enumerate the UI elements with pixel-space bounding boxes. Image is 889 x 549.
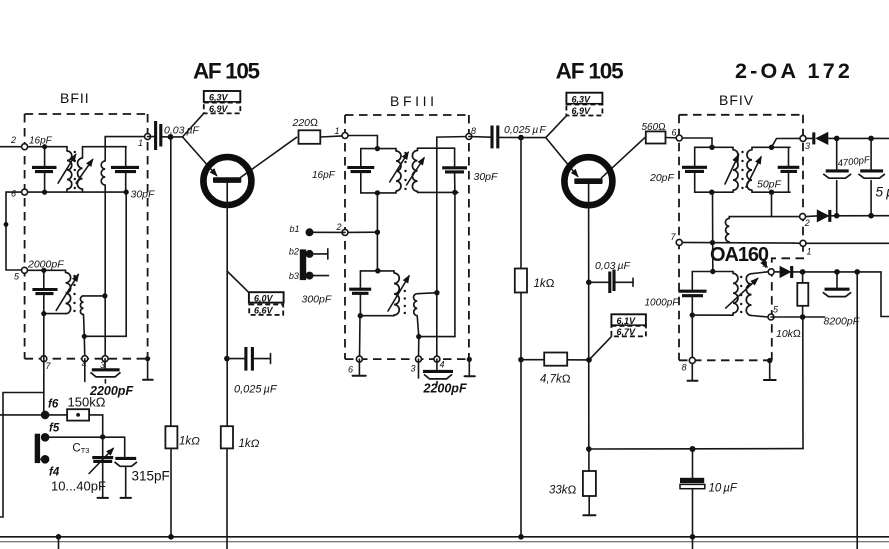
- svg-text:6,1V: 6,1V: [617, 316, 637, 326]
- capacitor 2200pF under BFIII pin4: [423, 359, 453, 384]
- IF can BFIV dashed box: [679, 115, 803, 360]
- wire BFIII tank bottom to pin6: [359, 316, 362, 359]
- svg-text:16pF: 16pF: [29, 136, 53, 147]
- wire long drop to bus right: [856, 272, 858, 549]
- coil BFIV coupling winding: [725, 217, 771, 243]
- wire BFIII feedback link: [419, 192, 455, 336]
- wire BFIV secondary to pin2 tee: [772, 192, 803, 216]
- coil BFII tap winding: [101, 137, 105, 185]
- pin 2 BFIV: [800, 214, 810, 228]
- svg-text:BFII: BFII: [60, 90, 90, 106]
- svg-text:f5: f5: [49, 423, 60, 435]
- capacitor 315pF: [115, 437, 138, 498]
- tuning arrow BFIV upper secondary: [746, 157, 761, 187]
- wire BFIII pin2 lead: [345, 231, 377, 233]
- wire pin5 rail: [771, 316, 825, 318]
- trimmer capacitor CT3 10...40pF: [89, 437, 113, 498]
- wire BFIV pin6 to tank: [679, 138, 715, 150]
- pin 4 BFIII: [434, 356, 445, 369]
- capacitor 0,03uF at second base: [586, 270, 633, 294]
- wire BFII tap down to lower secondary and pin3: [102, 185, 107, 359]
- svg-text:2-OA 172: 2-OA 172: [735, 59, 853, 83]
- svg-text:2: 2: [10, 135, 16, 145]
- node BFIII box corner with stub: [465, 357, 475, 376]
- svg-text:300pF: 300pF: [302, 294, 332, 306]
- transformer BFII upper core: [74, 151, 76, 189]
- svg-text:4: 4: [440, 360, 445, 370]
- svg-text:20pF: 20pF: [649, 172, 675, 184]
- wire edge line below bus: [0, 541, 889, 543]
- transistor AF105 second: collector line: [602, 138, 645, 178]
- svg-text:b3: b3: [289, 271, 299, 281]
- svg-text:150kΩ: 150kΩ: [68, 395, 106, 410]
- resistor 1k base first stage: [221, 426, 260, 549]
- svg-text:1: 1: [138, 138, 143, 148]
- wire BFII lower secondary top to tap vertical: [84, 295, 105, 297]
- pin 2 BFII: [10, 135, 28, 150]
- capacitor 5uF: [858, 138, 885, 215]
- capacitor 1000pF BFIV: [679, 272, 707, 318]
- svg-text:2200pF: 2200pF: [423, 382, 467, 396]
- pin 6 BFIV: [672, 128, 683, 142]
- transformer BFII upper secondary coil: [77, 147, 82, 192]
- resistor 220 collector first: [292, 117, 346, 144]
- svg-text:b1: b1: [290, 224, 300, 234]
- wire BFIII pin1 to tank: [345, 136, 380, 152]
- wire BFIV lower tank top: [692, 269, 733, 274]
- wire BFII pin6 to pin5 link via left: [4, 192, 25, 270]
- transformer BFIII lower secondary coil: [414, 294, 418, 316]
- capacitor 50pF BFIV: [778, 147, 800, 192]
- svg-text:1kΩ: 1kΩ: [239, 438, 260, 450]
- svg-text:4,7kΩ: 4,7kΩ: [540, 374, 571, 386]
- transformer BFIII upper core: [404, 152, 406, 190]
- svg-text:BFIII: BFIII: [390, 93, 438, 109]
- pin 7 BFIV: [671, 232, 683, 245]
- wire BFIII lower tank bottom: [360, 315, 394, 317]
- terminal f6: [41, 399, 59, 420]
- svg-text:1kΩ: 1kΩ: [179, 436, 200, 448]
- transistor AF105 first: collector line: [241, 137, 297, 177]
- svg-text:6,3V: 6,3V: [572, 94, 592, 104]
- pin 8 BFIII: [466, 126, 476, 140]
- transistor AF105 second: circle: [564, 157, 612, 205]
- tuning arrow BFIII upper secondary: [407, 158, 425, 185]
- transformer BFII lower core: [73, 275, 75, 312]
- capacitor 20pF BFIV: [682, 147, 707, 192]
- node detector line junction at base: [586, 446, 592, 452]
- voltage box 6,1V: [611, 314, 646, 326]
- svg-text:10kΩ: 10kΩ: [776, 328, 801, 340]
- wire BFII pin5 top rail: [25, 269, 66, 271]
- transistor AF105 second: emitter line with arrow: [546, 138, 578, 177]
- wire BFIV pin8 ground stub: [688, 360, 698, 380]
- svg-text:5µ: 5µ: [876, 185, 889, 200]
- tuning arrow BFIV upper primary: [725, 155, 739, 184]
- svg-text:2000pF: 2000pF: [27, 258, 64, 270]
- terminal f4: [40, 455, 60, 479]
- svg-text:16pF: 16pF: [312, 170, 336, 181]
- pin 3 BFIII: [411, 356, 422, 373]
- wire second base down: [588, 184, 590, 449]
- tuning arrow BFIII lower: [388, 276, 409, 311]
- svg-text:f6: f6: [48, 399, 59, 411]
- wire BFII secondary tank top: [83, 146, 127, 148]
- svg-text:8200pF: 8200pF: [824, 316, 860, 328]
- svg-text:2: 2: [804, 218, 810, 228]
- wire BFII pin6 bottom rail: [25, 191, 127, 193]
- pin 1 BFIII: [335, 126, 349, 139]
- diode OA172 lower at pin2: [806, 209, 889, 222]
- wire BFIV lower secondary top to pin4: [752, 272, 769, 274]
- terminal b2: [289, 247, 328, 260]
- pin 3 BFII: [100, 356, 108, 370]
- wire detector output line: [589, 448, 803, 450]
- transistor AF105 first: emitter line with arrow: [183, 137, 217, 176]
- wire BFIV 50pF tank bottom: [752, 190, 790, 195]
- wire BFII pin7 down to f6 node: [43, 359, 45, 415]
- resistor 1k at 0,025uF node: [515, 138, 555, 540]
- pin 3 BFIV: [800, 135, 810, 151]
- diode OA172 upper at pin3: [806, 132, 837, 145]
- svg-text:30pF: 30pF: [131, 189, 156, 201]
- svg-text:AF 105: AF 105: [193, 59, 260, 84]
- svg-text:BFIV: BFIV: [719, 92, 754, 108]
- node bus junction left: [56, 534, 62, 549]
- wire pin1 output to right edge: [806, 242, 889, 244]
- svg-text:315pF: 315pF: [132, 469, 170, 484]
- wire BFIV tank link vertical: [712, 192, 714, 271]
- svg-text:8: 8: [682, 363, 687, 373]
- svg-text:6,6V: 6,6V: [254, 306, 274, 316]
- wire rectifier top rail: [834, 136, 889, 142]
- wire BFIII pin6 ground stub: [353, 359, 366, 376]
- wire BFIV tank bottom to pin8: [691, 315, 693, 360]
- pin 1 BFIV: [800, 240, 812, 256]
- svg-text:30pF: 30pF: [474, 171, 499, 183]
- resistor 560 collector second: [642, 122, 680, 144]
- pin 6 BFIII: [348, 356, 362, 374]
- resistor 33k: [549, 449, 596, 515]
- wire BFII tank bottom to pin7: [43, 314, 45, 359]
- pin 7 BFII: [41, 356, 52, 371]
- wire BFIII lower secondary bottom to pin3: [416, 316, 421, 359]
- transformer BFIV lower secondary coil: [746, 274, 751, 316]
- capacitor 0,03uF coupling at BFII pin1: [148, 121, 171, 150]
- resistor 10k: [776, 272, 808, 340]
- resistor 4,7k: [518, 353, 592, 386]
- svg-text:AF 105: AF 105: [556, 59, 624, 84]
- wire BFIV 50pF tank top: [752, 138, 800, 150]
- transformer BFII lower secondary coil: [80, 296, 83, 315]
- capacitor 0,025uF at first base: [224, 347, 270, 371]
- transformer BFIII lower core: [404, 290, 406, 314]
- resistor 1k emitter first stage: [165, 137, 200, 540]
- node first emitter junction: [168, 134, 183, 140]
- wire BFIV upper tank bottom: [695, 190, 733, 195]
- svg-text:6,9V: 6,9V: [572, 106, 592, 116]
- svg-text:6,3V: 6,3V: [209, 93, 229, 103]
- transistor AF105 second: base bar: [574, 178, 602, 184]
- capacitor 30pF BFII: [111, 147, 139, 195]
- transformer BFII upper primary coil: [67, 147, 72, 192]
- node BFIII pin2 junction: [375, 230, 380, 235]
- node second emitter junction: [518, 135, 546, 141]
- tuning arrow BFIII upper primary: [390, 153, 408, 183]
- transformer BFIII upper primary coil: [396, 149, 401, 193]
- tuning arrow BFII upper primary: [58, 155, 76, 184]
- wire BFII pin2 input from left edge: [0, 146, 67, 148]
- pin 5 BFII: [14, 267, 28, 281]
- transistor AF105 first: circle: [203, 157, 251, 205]
- pointer arrow OA160 to pin4: [763, 262, 767, 267]
- wire BFIII secondary tank bottom: [418, 190, 459, 195]
- svg-text:6: 6: [672, 128, 677, 138]
- wire BFII lower secondary bottom to pin4: [82, 314, 87, 358]
- wire BFIII upper tank top: [361, 148, 396, 150]
- svg-text:1: 1: [807, 247, 812, 257]
- svg-text:0,025µF: 0,025µF: [504, 124, 546, 136]
- capacitor 4700pF: [823, 138, 851, 215]
- transformer BFII lower primary coil: [66, 270, 71, 313]
- capacitor 8200pF: [823, 272, 851, 297]
- node BFIV box corner with stub: [764, 358, 776, 380]
- pin 4 BFIV: [763, 260, 775, 275]
- svg-text:f4: f4: [49, 467, 60, 479]
- wire f6 feed from left edge: [0, 414, 67, 416]
- IF can BFII dashed box: [25, 114, 148, 359]
- terminal b3: [289, 271, 329, 281]
- capacitor 2000pF BFII: [32, 268, 57, 317]
- svg-text:6,0V: 6,0V: [254, 293, 274, 303]
- switch bar f4-f5: [35, 434, 40, 463]
- pin 2 BFIII: [336, 222, 349, 235]
- wire BFIV pin7 to pin1 rail: [679, 240, 800, 245]
- transformer BFIV upper core: [741, 151, 743, 189]
- voltage box 6,3V first: [204, 91, 241, 103]
- transformer BFIV upper primary coil: [733, 147, 738, 192]
- wire BFII lower tank bottom: [44, 313, 66, 315]
- voltage box 6,0V: [249, 292, 284, 303]
- wire BFIII upper tank bottom: [361, 190, 396, 195]
- wire BFIII lower tank top: [360, 268, 394, 273]
- capacitor 16pF BFIII: [347, 149, 374, 193]
- svg-text:10µF: 10µF: [709, 483, 738, 495]
- svg-text:6: 6: [348, 365, 353, 375]
- voltage box 6,9V second: [566, 105, 602, 116]
- svg-text:8: 8: [471, 126, 476, 136]
- svg-text:50pF: 50pF: [757, 179, 782, 191]
- wire BFIII lower secondary top lead: [417, 293, 437, 294]
- terminal b1: [290, 224, 346, 236]
- capacitor 0,025uF coupling at BFIII pin8: [469, 126, 521, 149]
- svg-text:0,03µF: 0,03µF: [595, 260, 630, 272]
- svg-text:220Ω: 220Ω: [292, 117, 319, 129]
- svg-text:10...40pF: 10...40pF: [51, 479, 106, 494]
- pin 1 BFII: [138, 134, 151, 148]
- svg-text:560Ω: 560Ω: [642, 122, 666, 133]
- svg-text:33kΩ: 33kΩ: [549, 485, 577, 497]
- pin 4 BFII: [82, 356, 88, 369]
- capacitor 10uF electrolytic: [680, 446, 738, 549]
- wire f5 rail: [45, 434, 125, 439]
- wire pointer to 6,1V box: [589, 337, 611, 360]
- wire BFIII secondary tank top: [418, 147, 455, 149]
- tuning arrow BFIV lower: [726, 279, 758, 309]
- wire BFIII pin3 stub: [418, 359, 420, 378]
- transformer BFIV lower primary coil: [733, 272, 738, 316]
- voltage box 6,6V: [249, 305, 283, 316]
- svg-text:1000pF: 1000pF: [645, 298, 680, 309]
- wire pointer to 6,3V box second: [546, 116, 567, 138]
- diode OA160: [774, 266, 802, 278]
- wire detector to 10k node drop: [802, 317, 804, 449]
- node BFII box corner with stub: [143, 356, 153, 380]
- svg-text:3: 3: [411, 364, 416, 374]
- wire 150k to trimmer node: [89, 415, 103, 437]
- svg-text:6,9V: 6,9V: [209, 104, 229, 114]
- voltage box 6,9V first: [204, 103, 241, 114]
- IF can BFIII dashed box: [345, 115, 469, 359]
- tuning arrow BFII lower: [56, 275, 78, 311]
- svg-text:0,025µF: 0,025µF: [234, 384, 278, 396]
- svg-text:b2: b2: [289, 247, 299, 257]
- pin 5 BFIV: [768, 305, 779, 321]
- wire branch to bottom left edge: [0, 393, 44, 518]
- terminal f5: [41, 423, 60, 442]
- svg-text:OA160: OA160: [710, 244, 769, 266]
- transformer BFIV upper secondary coil: [747, 147, 752, 192]
- transistor AF105 first: base bar: [213, 177, 241, 183]
- voltage box 6,7V: [611, 326, 646, 337]
- wire pointer to 6,0V box: [227, 271, 249, 293]
- wire BFIII link vertical down: [376, 193, 378, 271]
- svg-text:2: 2: [336, 222, 342, 232]
- wire BFIV lower tank bottom: [692, 314, 733, 316]
- wire BFII pin4 stub: [84, 359, 86, 382]
- transformer BFIII lower primary coil: [394, 271, 399, 316]
- pin 6 BFII: [11, 189, 28, 199]
- wire BFII feedback link: [84, 192, 126, 336]
- wire AGC output rail: [800, 269, 889, 316]
- wire BFII pin1 lead: [105, 136, 147, 138]
- capacitor 30pF BFIII: [442, 148, 467, 192]
- wire BFIII pin8 tap vertical: [434, 137, 469, 359]
- wire BFIV lower secondary bottom to pin5: [752, 316, 768, 318]
- svg-text:3: 3: [805, 141, 810, 151]
- resistor 150k: [67, 395, 106, 421]
- capacitor 300pF BFIII: [349, 271, 371, 319]
- wire first base down: [226, 183, 228, 426]
- tuning arrow BFII upper secondary: [76, 160, 93, 184]
- switch bar b2-b3: [300, 249, 306, 280]
- svg-text:1kΩ: 1kΩ: [534, 278, 555, 290]
- svg-text:6: 6: [11, 189, 16, 199]
- wire pointer to 6,3V box first: [183, 113, 204, 137]
- transformer BFIV lower core: [740, 276, 742, 313]
- wire ground bus: [0, 536, 889, 538]
- svg-text:1: 1: [335, 126, 340, 136]
- svg-text:6,7V: 6,7V: [617, 327, 637, 337]
- wire BFIV upper tank top: [695, 146, 733, 148]
- transformer BFIII upper secondary coil: [412, 148, 417, 192]
- capacitor 16pF BFII: [32, 144, 57, 195]
- voltage box 6,3V second: [566, 93, 602, 105]
- pin 8 BFIV: [682, 357, 696, 372]
- capacitor 2200pF under BFII pin3: [91, 359, 121, 383]
